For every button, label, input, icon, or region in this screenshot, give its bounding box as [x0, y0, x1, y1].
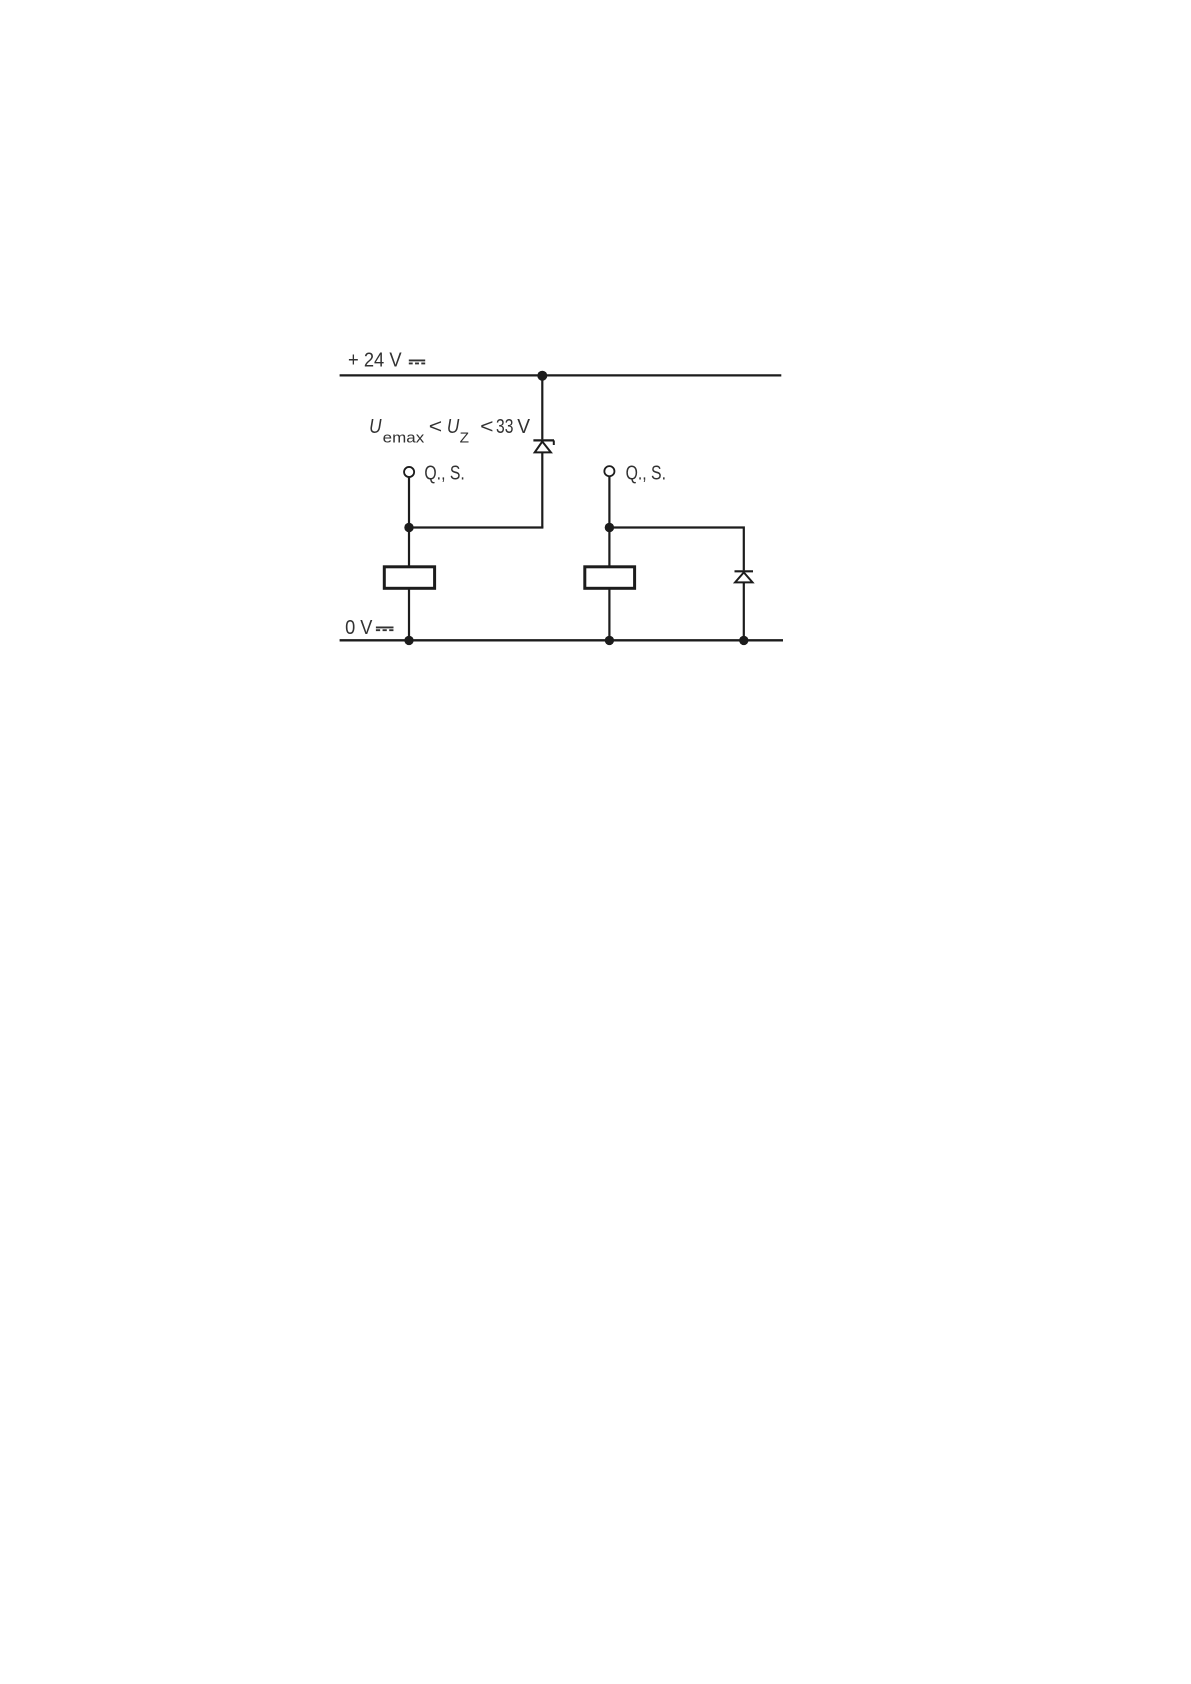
node on +24 V rail	[537, 371, 547, 381]
svg-text:Q., S.: Q., S.	[424, 462, 464, 484]
wire node A to zener branch (horizontal)	[409, 526, 543, 528]
svg-text:V: V	[517, 416, 530, 438]
wire relay coil K2 to 0 V rail	[608, 589, 610, 640]
svg-text:Q., S.: Q., S.	[626, 462, 666, 484]
wire +24 V rail	[340, 374, 782, 376]
relay coil K2	[585, 567, 635, 589]
node A (left branch junction)	[404, 523, 413, 532]
wire right terminal to node B	[608, 477, 610, 528]
svg-text:U: U	[447, 416, 460, 438]
svg-text:emax: emax	[383, 429, 425, 446]
svg-text:0 V: 0 V	[345, 617, 373, 639]
svg-text:<: <	[480, 416, 493, 438]
wire relay coil K1 to 0 V rail	[408, 589, 410, 640]
node B (right branch junction)	[605, 523, 614, 532]
DC symbol (+24 V)	[409, 360, 425, 363]
svg-text:U: U	[369, 416, 382, 438]
wire diode V2 anode to 0 V rail	[743, 583, 745, 641]
terminal Q., S. (left)	[404, 467, 414, 477]
node on 0 V rail (diode branch)	[739, 636, 748, 645]
wire zener anode down to node A	[541, 453, 543, 528]
svg-text:33: 33	[496, 416, 513, 438]
wire node B to diode V2 cathode	[609, 528, 743, 571]
wire node A to relay coil K1	[408, 528, 410, 567]
svg-text:Z: Z	[460, 429, 469, 446]
wire from +24 V node to zener cathode	[541, 376, 543, 439]
terminal Q., S. (right)	[604, 466, 614, 476]
wire left terminal to node A	[408, 478, 410, 528]
label Uemax < UZ < 33 V	[369, 416, 531, 446]
svg-text:+ 24 V: + 24 V	[348, 350, 402, 372]
wire 0 V rail	[340, 639, 783, 641]
node on 0 V rail (centre)	[605, 636, 614, 645]
zener diode V1	[533, 440, 554, 452]
node on 0 V rail (left)	[404, 636, 413, 645]
diode V2 (suppressor across coil K2)	[735, 571, 754, 582]
DC symbol (0 V)	[376, 627, 394, 630]
svg-text:<: <	[429, 416, 442, 438]
wire node B to relay coil K2	[608, 528, 610, 567]
relay coil K1	[384, 567, 434, 589]
